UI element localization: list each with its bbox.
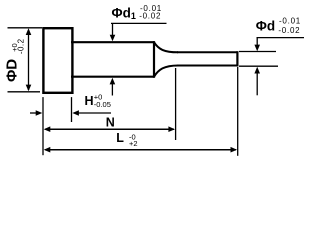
- dimension Phid1 arrow up below shaft: [110, 78, 116, 85]
- dimension PhiD arrow down: [26, 85, 32, 92]
- extension line left shared (H,N,L): [42, 97, 44, 155]
- svg-text:-0.01: -0.01: [279, 17, 301, 26]
- dimension PhiD extension line top: [8, 27, 43, 29]
- taper shoulder edge: [153, 41, 155, 78]
- extension line N right: [175, 68, 177, 140]
- leader Phid1 underline: [111, 22, 167, 24]
- leader Phid1 vertical: [112, 23, 114, 36]
- svg-text:-0.2: -0.2: [17, 38, 26, 54]
- svg-text:H: H: [85, 94, 94, 108]
- extension line L right: [237, 67, 239, 156]
- small shaft d top outline: [177, 51, 237, 53]
- small shaft end face: [236, 51, 238, 66]
- small shaft d bottom outline: [177, 65, 237, 67]
- dimension Phid arrow up below: [254, 67, 260, 74]
- dimension H left arrow: [30, 112, 37, 114]
- svg-text:L: L: [116, 131, 124, 145]
- svg-text:N: N: [106, 116, 115, 130]
- extension line H right: [71, 97, 73, 122]
- dimension N left arrow: [44, 126, 51, 132]
- dimension Phid extension top: [239, 51, 276, 53]
- svg-text:ΦD: ΦD: [3, 59, 20, 82]
- dimension N line: [45, 128, 174, 130]
- leader Phid1 arrow down: [110, 35, 116, 42]
- taper top curve: [154, 42, 178, 52]
- dimension L line: [45, 149, 236, 151]
- taper bottom curve: [154, 66, 178, 77]
- dimension L right arrow: [231, 147, 238, 153]
- pin head body: [43, 28, 72, 93]
- leader Phid vertical: [256, 38, 258, 46]
- dimension H right arrow: [72, 110, 79, 116]
- leader Phid underline: [257, 37, 305, 39]
- svg-text:-0.02: -0.02: [139, 12, 161, 21]
- dimension Phid extension bottom: [239, 65, 278, 67]
- dimension PhiD extension line bottom: [8, 91, 41, 93]
- svg-text:Φd: Φd: [256, 18, 275, 33]
- dimension PhiD arrow up: [26, 28, 32, 35]
- shaft d1 top outline: [71, 41, 154, 43]
- shaft d1 bottom outline: [71, 76, 154, 78]
- svg-text:+2: +2: [129, 139, 138, 148]
- leader Phid arrow down: [254, 45, 260, 52]
- dimension L left arrow: [44, 147, 51, 153]
- svg-text:-0.05: -0.05: [94, 100, 111, 109]
- dimension N right arrow: [168, 126, 175, 132]
- dimension PhiD dimension line: [28, 30, 30, 90]
- svg-text:-0.02: -0.02: [278, 26, 300, 35]
